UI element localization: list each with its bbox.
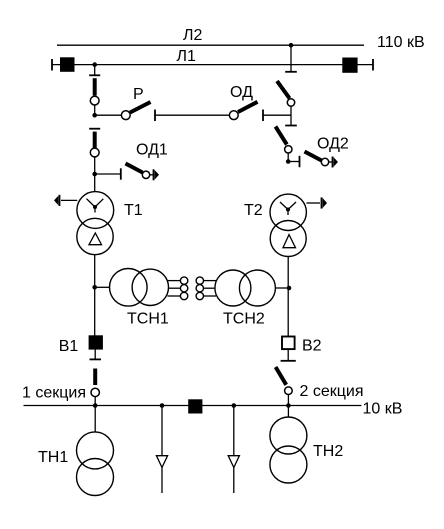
transformer T2 upper circle (star winding)	[270, 194, 306, 230]
svg-text:2 секция: 2 секция	[300, 383, 364, 400]
svg-text:Л2: Л2	[183, 27, 203, 44]
ТСН1 tap circles	[180, 277, 187, 284]
transformer T1 lower circle (delta winding)	[77, 218, 113, 254]
disconnector QS6 circle	[285, 387, 293, 395]
disconnector ОД1 tick	[120, 168, 122, 179]
disconnector ОД2 blade (open)	[305, 152, 322, 161]
svg-text:10 кВ: 10 кВ	[363, 401, 403, 418]
node on Л1 at left branch	[92, 62, 97, 67]
svg-text:110 кВ: 110 кВ	[377, 34, 425, 51]
disconnector QS6 tick	[281, 360, 296, 362]
transformer ТН1 lower circle	[77, 459, 114, 496]
node C (ОД2 junction)	[286, 159, 291, 164]
ТСН2 tap circles	[196, 277, 203, 284]
svg-text:ОД2: ОД2	[317, 136, 349, 153]
ground symbol at ОД2	[332, 157, 334, 168]
node bus-В2	[286, 403, 291, 408]
bus-tie breaker (black square)	[188, 399, 202, 413]
bus 10 kV (sections 1 and 2)	[24, 405, 362, 407]
svg-text:ТН2: ТН2	[313, 443, 343, 460]
disconnector QS5 tick	[90, 358, 102, 360]
feeder 2 wire	[233, 406, 235, 456]
disconnector QS1 blade	[93, 78, 97, 95]
wire node D to T1	[94, 174, 96, 192]
node D (ОД1 junction)	[92, 172, 97, 177]
svg-text:ОД1: ОД1	[136, 142, 168, 159]
wire T2 neutral to ground	[306, 202, 320, 204]
wire QS3 circle to node B	[290, 106, 292, 125]
disconnector QS3 circle	[287, 99, 294, 106]
breaker (black square) on Л1 right	[342, 58, 357, 73]
node on Л2 at right branch	[289, 43, 294, 48]
wire T2 down to node F and В2	[287, 257, 289, 337]
ground symbol at T2 neutral	[321, 197, 323, 208]
breaker (black square) on Л1 left	[60, 57, 75, 72]
ТСН1 tap wires	[168, 280, 181, 282]
svg-text:ТСН2: ТСН2	[223, 311, 265, 328]
T2 star symbol	[280, 202, 296, 215]
wire QS6 to bus 2	[287, 395, 289, 406]
wire node D to ОД1 tick	[95, 173, 121, 175]
disconnector QS4 circle	[285, 146, 292, 153]
disconnector P blade (open)	[130, 102, 151, 113]
wire QS5 to bus 1	[94, 397, 96, 406]
transformer T2 lower circle (delta winding)	[270, 221, 306, 257]
svg-text:В2: В2	[302, 338, 322, 355]
disconnector ОД circle	[229, 111, 238, 120]
ground symbol at T1 neutral	[59, 195, 61, 206]
svg-text:ТСН1: ТСН1	[127, 311, 169, 328]
T1 delta symbol	[89, 233, 102, 245]
wire Л2 node down across Л1	[290, 45, 292, 72]
svg-text:В1: В1	[59, 338, 79, 355]
svg-text:1 секция: 1 секция	[22, 385, 86, 402]
disconnector ОД2 tick	[299, 156, 301, 167]
disconnector QS4 tick	[285, 125, 297, 127]
wire В1 to QS5 tick	[94, 349, 96, 360]
node bus-feeder2	[232, 403, 237, 408]
feeder 1 wire	[161, 406, 163, 456]
wire Л1 node down to disconnector QS1	[94, 65, 96, 76]
svg-text:Р: Р	[133, 86, 144, 103]
disconnector QS1 circle	[90, 96, 99, 105]
wire QS1 to node A	[94, 105, 96, 115]
transformer T1 upper circle (star winding)	[77, 192, 114, 229]
T1 star symbol	[87, 199, 104, 213]
svg-text:ТН1: ТН1	[38, 449, 68, 466]
transformer ТН2 lower circle	[270, 446, 307, 483]
disconnector QS6 blade (open)	[276, 367, 287, 385]
tick left end of Л1	[51, 59, 53, 71]
disconnector QS4 blade (open)	[276, 127, 287, 145]
wire node C to ОД2 tick	[288, 161, 299, 163]
breaker В1 (closed, black square)	[89, 335, 103, 349]
tick right end of Л1	[372, 59, 374, 71]
node bus-feeder1	[160, 403, 165, 408]
disconnector QS2 circle	[90, 148, 99, 157]
svg-text:Т1: Т1	[124, 202, 143, 219]
node A (junction of P line)	[92, 113, 97, 118]
wire bus to ТН2	[287, 406, 289, 418]
wire node E down to В1	[94, 287, 96, 336]
wire node A to disconnector P circle	[95, 114, 122, 116]
svg-text:Л1: Л1	[177, 48, 197, 65]
wire T1 neutral to ground	[61, 199, 77, 201]
wire В2 to QS6 tick	[287, 350, 289, 361]
wire QS2 to node D	[94, 157, 96, 174]
disconnector QS3 blade (open)	[277, 81, 290, 98]
transformer ТН2 upper circle	[270, 417, 307, 454]
transformer ТН1 upper circle	[77, 432, 114, 469]
feeder 1 arrow	[156, 456, 167, 468]
wire bus to ТН1	[94, 406, 96, 433]
wire ОД1 circle to ground	[150, 174, 154, 176]
transformer ТСН2 right circle	[239, 270, 275, 306]
disconnector ОД tick	[262, 110, 264, 122]
node E (ТСН1 junction)	[92, 285, 97, 290]
disconnector P tick	[154, 110, 156, 122]
wire ТСН2 to node F	[275, 287, 289, 289]
disconnector QS2 blade	[93, 132, 97, 148]
wire node E to ТСН1	[95, 286, 110, 288]
ТСН2 tap wires	[204, 280, 217, 282]
disconnector ОД blade (open)	[238, 102, 258, 112]
wire ОД tick to node B	[263, 114, 291, 116]
line Л2 (110 kV)	[57, 44, 364, 46]
disconnector ОД1 circle	[142, 171, 149, 178]
breaker В2 (open, white square)	[282, 337, 295, 350]
node F (ТСН2 junction)	[287, 286, 292, 291]
disconnector QS1 (closed) tick	[89, 74, 100, 76]
disconnector ОД1 blade (open)	[126, 164, 143, 173]
T2 delta symbol	[283, 235, 296, 248]
feeder 2 arrow	[228, 456, 239, 468]
transformer ТСН1 right circle	[132, 269, 168, 305]
disconnector ОД2 circle	[321, 158, 328, 165]
transformer ТСН2 left circle	[215, 270, 251, 306]
wire P tick to OD circle	[155, 114, 229, 116]
disconnector QS5 blade (closed)	[93, 369, 97, 386]
line Л1	[52, 64, 373, 66]
wire QS4 circle to node C	[287, 153, 289, 162]
svg-text:ОД: ОД	[230, 84, 253, 101]
svg-text:Т2: Т2	[244, 202, 263, 219]
wire ОД2 circle to ground	[329, 161, 333, 163]
wire T1 down to node E	[94, 255, 96, 288]
node bus-В1	[93, 403, 98, 408]
disconnector P circle	[121, 111, 130, 120]
disconnector QS5 circle	[91, 388, 99, 396]
ground symbol at ОД1	[153, 169, 155, 180]
disconnector QS2 tick	[89, 128, 100, 130]
transformer ТСН1 left circle	[110, 269, 148, 307]
disconnector QS3 tick	[285, 71, 297, 73]
